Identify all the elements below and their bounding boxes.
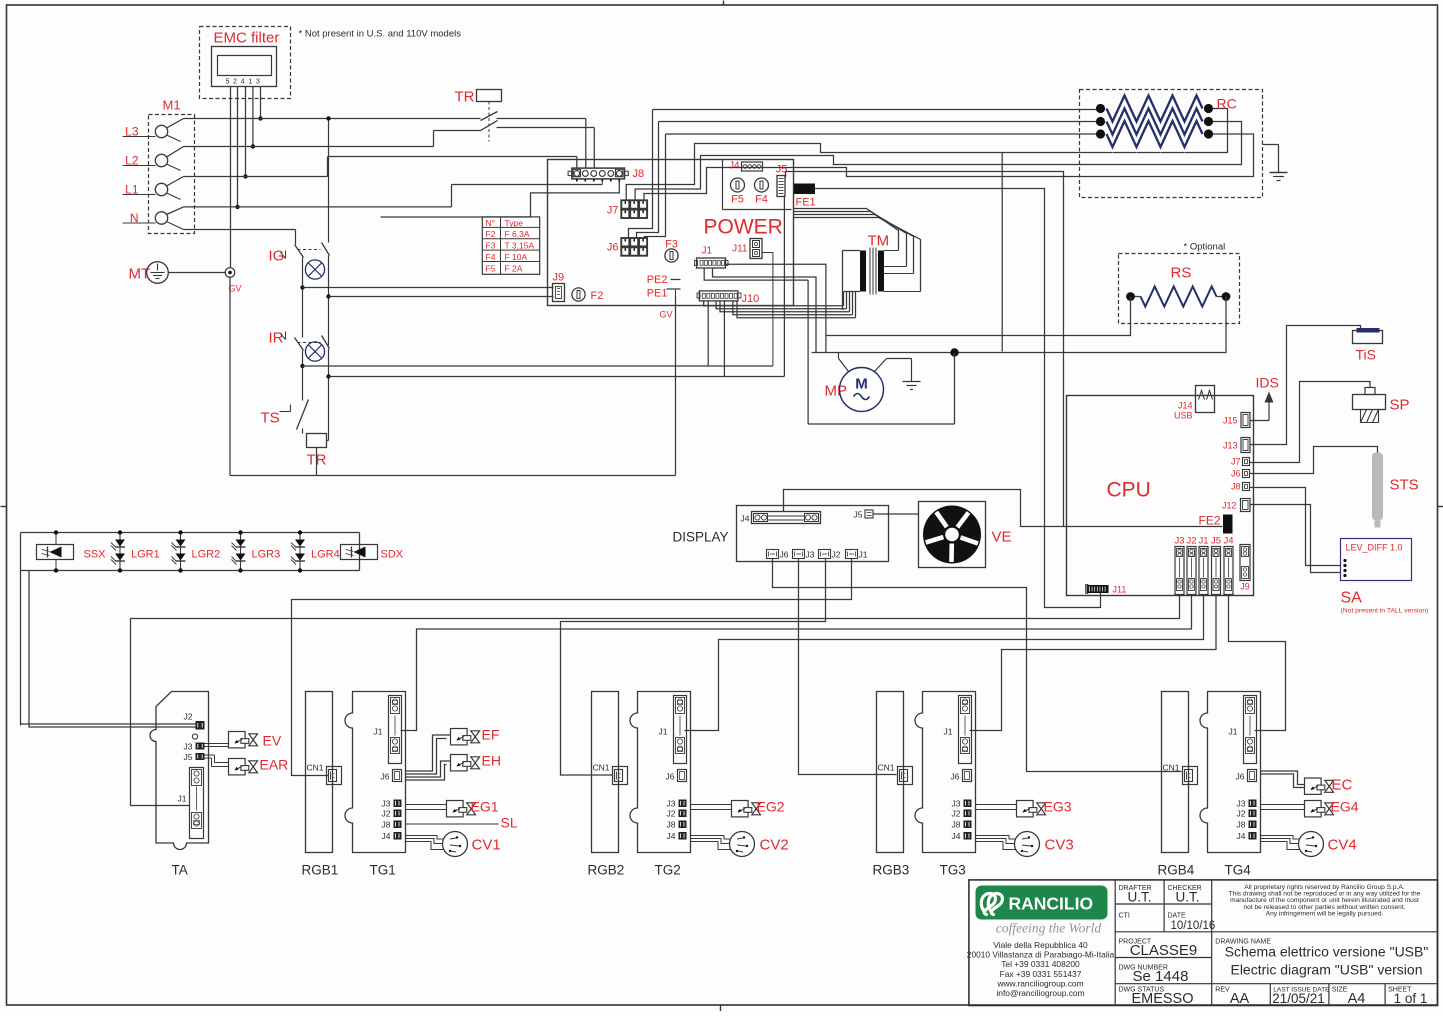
svg-text:TG1: TG1	[370, 863, 396, 878]
svg-text:TR: TR	[455, 89, 475, 106]
svg-text:LGR2: LGR2	[192, 549, 221, 561]
svg-text:CTI: CTI	[1119, 913, 1130, 920]
svg-text:USB: USB	[1174, 411, 1193, 421]
svg-text:M: M	[855, 376, 868, 393]
svg-text:DATE: DATE	[1168, 913, 1186, 920]
svg-text:LGR1: LGR1	[131, 549, 160, 561]
svg-text:Type: Type	[505, 218, 524, 228]
svg-text:J6: J6	[1236, 772, 1245, 782]
svg-text:Fax +39 0331 551437: Fax +39 0331 551437	[1000, 969, 1082, 979]
svg-text:5: 5	[226, 79, 230, 86]
svg-text:F2: F2	[486, 229, 496, 239]
svg-text:3: 3	[256, 79, 260, 86]
svg-text:J8: J8	[667, 820, 676, 830]
svg-text:FE2: FE2	[1198, 514, 1220, 528]
svg-text:J11: J11	[1113, 585, 1127, 595]
svg-text:2: 2	[233, 79, 237, 86]
svg-text:RGB4: RGB4	[1158, 863, 1195, 878]
svg-text:SSX: SSX	[84, 549, 107, 561]
svg-text:CN1: CN1	[592, 763, 609, 773]
svg-text:info@ranciliogroup.com: info@ranciliogroup.com	[996, 988, 1084, 998]
svg-text:IDS: IDS	[1256, 375, 1279, 391]
svg-text:J2: J2	[832, 550, 841, 560]
svg-text:J4: J4	[1223, 536, 1233, 547]
svg-text:RGB3: RGB3	[873, 863, 910, 878]
svg-text:SP: SP	[1390, 397, 1410, 414]
svg-text:F5: F5	[731, 194, 744, 206]
svg-text:A4: A4	[1348, 991, 1366, 1007]
svg-text:VE: VE	[992, 529, 1012, 546]
svg-text:CN1: CN1	[1162, 763, 1179, 773]
svg-text:EG2: EG2	[757, 799, 785, 815]
svg-text:CV2: CV2	[760, 837, 789, 854]
svg-text:J4: J4	[952, 831, 961, 841]
svg-text:J4: J4	[667, 831, 676, 841]
svg-text:N°: N°	[486, 218, 496, 228]
svg-text:J2: J2	[1237, 809, 1246, 819]
svg-text:Electric diagram "USB" version: Electric diagram "USB" version	[1230, 962, 1422, 978]
svg-text:J4: J4	[729, 161, 740, 172]
svg-text:J11: J11	[732, 244, 748, 255]
svg-text:LGR3: LGR3	[252, 549, 281, 561]
svg-text:Schema elettrico versione "USB: Schema elettrico versione "USB"	[1225, 944, 1429, 960]
svg-text:J2: J2	[1186, 536, 1196, 547]
svg-text:J1: J1	[859, 550, 868, 560]
svg-text:CV1: CV1	[472, 837, 501, 854]
svg-text:J8: J8	[952, 820, 961, 830]
svg-text:Viale della Repubblica 40: Viale della Repubblica 40	[993, 940, 1088, 950]
svg-text:CPU: CPU	[1107, 479, 1151, 502]
svg-text:J8: J8	[382, 820, 391, 830]
svg-text:F5: F5	[486, 263, 496, 273]
svg-text:J3: J3	[184, 742, 193, 752]
svg-text:TG3: TG3	[940, 863, 966, 878]
svg-text:LGR4: LGR4	[311, 549, 340, 561]
svg-text:* Optional: * Optional	[1184, 242, 1226, 253]
svg-text:EG3: EG3	[1044, 799, 1072, 815]
svg-text:J3: J3	[1174, 536, 1184, 547]
svg-text:J5: J5	[1211, 536, 1221, 547]
svg-text:STS: STS	[1390, 477, 1419, 494]
svg-text:CV4: CV4	[1328, 837, 1357, 854]
svg-text:J10: J10	[742, 293, 760, 305]
svg-text:Se 1448: Se 1448	[1133, 968, 1189, 985]
svg-text:TA: TA	[172, 863, 188, 878]
svg-text:AA: AA	[1230, 991, 1250, 1007]
svg-text:J3: J3	[382, 799, 391, 809]
svg-text:POWER: POWER	[704, 216, 783, 239]
svg-text:J2: J2	[382, 809, 391, 819]
svg-text:J7: J7	[1231, 457, 1241, 467]
svg-text:EG4: EG4	[1331, 799, 1359, 815]
svg-text:J3: J3	[806, 550, 815, 560]
svg-text:Tel +39 0331 408200: Tel +39 0331 408200	[1001, 959, 1080, 969]
svg-text:J2: J2	[184, 712, 193, 722]
svg-text:T 3,15A: T 3,15A	[505, 241, 535, 251]
svg-text:REV: REV	[1215, 987, 1230, 994]
svg-text:J2: J2	[667, 809, 676, 819]
svg-text:J1: J1	[1229, 727, 1238, 737]
svg-text:J8: J8	[1231, 482, 1241, 492]
svg-text:IG: IG	[269, 248, 285, 265]
svg-text:TM: TM	[868, 233, 890, 250]
svg-text:J1: J1	[702, 246, 713, 257]
svg-text:10/10/16: 10/10/16	[1171, 920, 1216, 932]
svg-text:J13: J13	[1223, 441, 1238, 451]
svg-text:U.T.: U.T.	[1175, 890, 1199, 905]
svg-text:U.T.: U.T.	[1127, 890, 1151, 905]
svg-text:F3: F3	[665, 239, 678, 251]
svg-text:J3: J3	[667, 799, 676, 809]
svg-text:EMC filter: EMC filter	[214, 30, 280, 47]
svg-text:GV: GV	[660, 310, 673, 320]
svg-text:CN1: CN1	[877, 763, 894, 773]
svg-text:IR: IR	[269, 330, 284, 347]
svg-text:J5: J5	[184, 752, 193, 762]
svg-text:J6: J6	[666, 772, 675, 782]
svg-text:1: 1	[248, 79, 252, 86]
svg-text:J6: J6	[607, 242, 619, 254]
svg-text:SDX: SDX	[381, 549, 404, 561]
svg-text:J4: J4	[1237, 831, 1246, 841]
svg-text:TG4: TG4	[1225, 863, 1252, 878]
svg-text:F 6,3A: F 6,3A	[505, 229, 530, 239]
svg-text:J6: J6	[780, 550, 789, 560]
svg-text:J8: J8	[633, 168, 645, 180]
svg-text:RGB2: RGB2	[588, 863, 625, 878]
svg-text:TS: TS	[261, 410, 280, 427]
svg-text:J7: J7	[607, 205, 619, 217]
svg-text:RGB1: RGB1	[302, 863, 339, 878]
svg-text:Any infringement will be legal: Any infringement will be legally pursued…	[1266, 910, 1384, 917]
svg-text:J9: J9	[553, 272, 565, 284]
svg-text:20010 Villastanza di Parabiago: 20010 Villastanza di Parabiago-Mi-Italia	[967, 950, 1115, 960]
svg-text:FE1: FE1	[796, 197, 816, 209]
svg-text:F3: F3	[486, 241, 496, 251]
svg-text:DISPLAY: DISPLAY	[673, 530, 729, 545]
svg-text:J4: J4	[382, 831, 391, 841]
svg-text:EF: EF	[482, 727, 500, 743]
svg-text:CLASSE9: CLASSE9	[1130, 942, 1198, 959]
svg-text:F2: F2	[591, 290, 604, 302]
svg-text:J1: J1	[374, 727, 383, 737]
svg-text:SA: SA	[1341, 590, 1363, 607]
svg-text:J12: J12	[1222, 501, 1237, 511]
svg-text:J6: J6	[381, 772, 390, 782]
svg-text:SIZE: SIZE	[1332, 987, 1348, 994]
svg-text:J1: J1	[659, 727, 668, 737]
svg-text:EG1: EG1	[471, 799, 499, 815]
svg-text:SL: SL	[501, 815, 518, 831]
svg-text:J15: J15	[1223, 416, 1238, 426]
svg-text:J4: J4	[741, 514, 750, 524]
svg-text:J5: J5	[854, 510, 863, 520]
svg-text:F4: F4	[755, 194, 768, 206]
svg-text:1 of 1: 1 of 1	[1394, 991, 1428, 1006]
svg-text:J2: J2	[952, 809, 961, 819]
svg-text:J3: J3	[952, 799, 961, 809]
svg-text:EH: EH	[482, 753, 501, 769]
svg-text:J1: J1	[944, 727, 953, 737]
svg-text:RS: RS	[1171, 265, 1192, 282]
svg-text:F 2A: F 2A	[505, 263, 523, 273]
svg-text:4: 4	[241, 79, 245, 86]
svg-text:J1: J1	[1198, 536, 1208, 547]
svg-text:coffeeing the World: coffeeing the World	[996, 921, 1101, 936]
svg-text:J9: J9	[1240, 582, 1250, 592]
svg-text:EAR: EAR	[260, 757, 289, 773]
svg-text:J6: J6	[951, 772, 960, 782]
svg-text:J8: J8	[1237, 820, 1246, 830]
svg-text:J3: J3	[1237, 799, 1246, 809]
svg-text:CN1: CN1	[306, 763, 323, 773]
svg-text:21/05/21: 21/05/21	[1272, 991, 1325, 1006]
svg-text:MP: MP	[825, 383, 848, 400]
svg-text:EV: EV	[263, 733, 282, 749]
svg-text:EMESSO: EMESSO	[1131, 991, 1193, 1007]
svg-text:F 10A: F 10A	[505, 252, 528, 262]
svg-text:M1: M1	[163, 98, 181, 113]
svg-text:RC: RC	[1217, 96, 1237, 112]
svg-text:www.ranciliogroup.com: www.ranciliogroup.com	[996, 978, 1083, 988]
svg-text:J14: J14	[1178, 401, 1193, 411]
svg-text:EC: EC	[1332, 777, 1353, 794]
svg-text:PE1: PE1	[647, 288, 668, 300]
svg-text:TiS: TiS	[1356, 347, 1376, 363]
svg-text:LEV_DIFF 1.0: LEV_DIFF 1.0	[1346, 543, 1403, 553]
svg-text:CV3: CV3	[1045, 837, 1074, 854]
svg-text:RANCILIO: RANCILIO	[1009, 894, 1094, 914]
svg-text:(Not present in TALL version): (Not present in TALL version)	[1341, 608, 1429, 615]
svg-text:F4: F4	[486, 252, 496, 262]
svg-text:J1: J1	[178, 794, 187, 804]
svg-text:PE2: PE2	[647, 274, 668, 286]
svg-text:J6: J6	[1231, 469, 1241, 479]
svg-text:TG2: TG2	[655, 863, 681, 878]
svg-text:* Not present in U.S. and 110V: * Not present in U.S. and 110V models	[299, 29, 462, 40]
